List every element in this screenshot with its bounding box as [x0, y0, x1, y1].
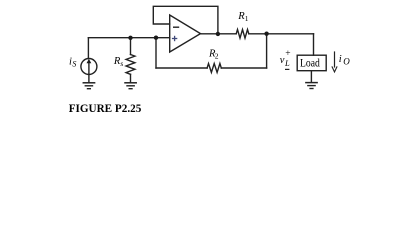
wire R2 right vertical (load node to R2): [266, 34, 268, 68]
ground (under Load): [306, 82, 317, 84]
svg-text:O: O: [343, 57, 350, 67]
svg-text:2: 2: [215, 52, 219, 61]
svg-text:i: i: [339, 54, 342, 65]
node junction op-amp output / feedback: [216, 32, 220, 36]
ground (under Rs): [125, 82, 136, 84]
current source iS: [81, 59, 97, 75]
svg-text:S: S: [72, 60, 76, 69]
resistor R1: [236, 30, 249, 39]
svg-text:L: L: [284, 58, 290, 68]
wire iS top lead: [87, 38, 89, 59]
label vL minus polarity: [285, 68, 289, 70]
node junction R1 / R2 / load: [264, 32, 268, 36]
wire R2 net horizontal right: [221, 67, 266, 69]
svg-text:Load: Load: [300, 58, 320, 70]
wire main input net (iS/Rs node to op-amp + input): [88, 37, 169, 39]
node junction + input / R2 tap: [154, 36, 158, 40]
wire R2 left vertical up to + input net: [155, 38, 157, 68]
op-amp U1: [170, 15, 201, 52]
wire op-amp output: [201, 33, 237, 35]
wire feedback loop (- input to output): [153, 6, 218, 34]
svg-text:FIGURE P2.25: FIGURE P2.25: [69, 101, 142, 115]
svg-text:s: s: [120, 59, 123, 68]
load box: [297, 55, 326, 70]
node junction iS/Rs: [128, 36, 132, 40]
wire Rs top lead: [130, 38, 132, 55]
ground (under iS): [83, 82, 94, 84]
wire iS bottom lead: [88, 75, 90, 83]
wire R2 net horizontal left: [156, 67, 207, 69]
op-amp minus pin label: [173, 26, 179, 28]
wire Rs bottom lead: [130, 74, 132, 82]
arrow iO (output current): [334, 52, 336, 67]
op-amp plus pin label: [172, 36, 177, 41]
wire load node down to Load box: [313, 34, 315, 55]
resistor Rs: [126, 55, 135, 75]
resistor R2: [207, 64, 221, 73]
wire R1 to load node: [249, 33, 314, 35]
wire Load bottom lead: [310, 71, 312, 82]
svg-text:1: 1: [245, 14, 249, 23]
